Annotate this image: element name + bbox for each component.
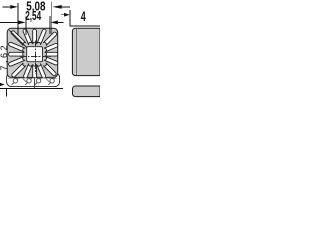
svg-text:4: 4 — [81, 8, 86, 24]
svg-text:7,62: 7,62 — [0, 46, 9, 71]
svg-text:2,54: 2,54 — [25, 9, 41, 23]
